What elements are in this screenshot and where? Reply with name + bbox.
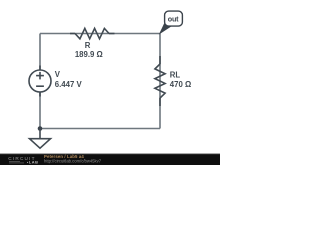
- node out flag balloon: [165, 11, 183, 26]
- svg-text:189.9 Ω: 189.9 Ω: [75, 50, 103, 59]
- wire left vertical: [39, 34, 41, 129]
- svg-text:V: V: [55, 70, 61, 79]
- wire bottom: [40, 128, 160, 130]
- voltage source V: [29, 66, 51, 97]
- watermark logo lines: [9, 162, 24, 163]
- svg-text:▪LAB: ▪LAB: [27, 159, 38, 164]
- resistor RL: [155, 56, 165, 106]
- resistor R1: [70, 28, 115, 38]
- svg-text:470 Ω: 470 Ω: [170, 80, 191, 89]
- svg-text:http://circuitlab.com/c/bw45kv: http://circuitlab.com/c/bw45kv7: [44, 159, 102, 164]
- node out flag pointer: [159, 23, 172, 34]
- svg-text:RL: RL: [170, 70, 181, 79]
- svg-text:out: out: [168, 14, 179, 23]
- watermark bar: [0, 154, 220, 166]
- junction node dot: [38, 126, 43, 131]
- ground: [30, 129, 51, 149]
- svg-text:6.447 V: 6.447 V: [55, 80, 83, 89]
- svg-text:R: R: [85, 41, 91, 50]
- wire right vertical: [159, 34, 161, 129]
- wire top: node A to node out: [40, 33, 160, 35]
